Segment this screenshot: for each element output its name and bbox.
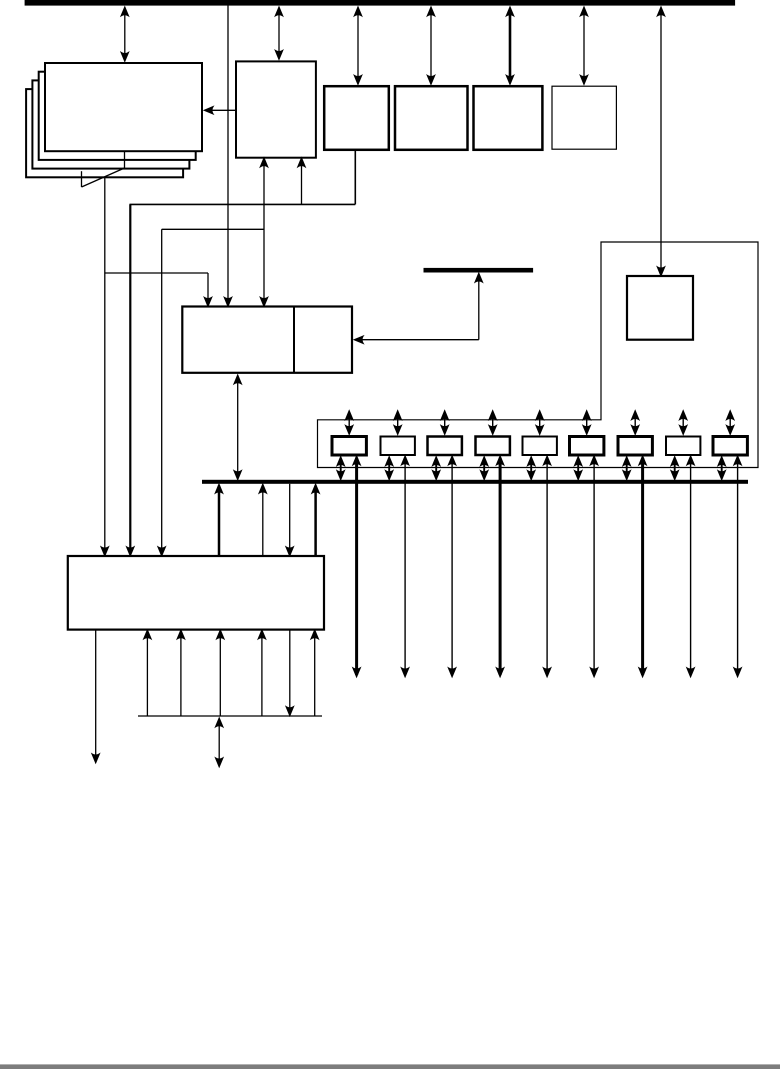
wire: control block to register stack (arrow left) <box>207 109 237 111</box>
block B2 <box>395 86 468 150</box>
status register bar (thick) <box>424 268 534 273</box>
wire: latch P8 to data bus (double arrow) <box>721 459 723 478</box>
wire: bus to register stack (double arrow) <box>124 9 126 60</box>
wire: control block bottom branch (up arrow) <box>301 160 303 205</box>
wire: latch P7 to data bus (double arrow) <box>674 459 676 478</box>
wire: latch P6 to data bus (double arrow) <box>626 459 628 478</box>
footer rule (gray) <box>0 1064 780 1069</box>
wire: data bus to ALU (down arrow) <box>289 484 291 554</box>
wire: status bar to decode block (L, two heads) <box>478 275 480 340</box>
wire: latch P7 long line to pins (down arrow) <box>690 458 692 675</box>
port latch P0 <box>332 437 366 456</box>
port latch P5 <box>570 437 604 456</box>
wire: latch P3 long line to pins (down arrow) <box>499 458 502 675</box>
wire: rail stub (double arrow) <box>218 720 220 765</box>
wire: bus to block B3 (double arrow, bold) <box>509 9 512 83</box>
wire: latch P4 to data bus (double arrow) <box>530 459 532 478</box>
control block <box>236 61 316 157</box>
port latch P6 <box>618 437 652 456</box>
wire: rail to ALU (up arrow) <box>219 632 221 716</box>
wire: pad to latch P5 (double arrow) <box>586 413 588 433</box>
wire: pad to latch P2 (double arrow) <box>444 413 446 433</box>
block B1 <box>324 86 389 150</box>
wire: bold line down to ALU block <box>129 204 131 554</box>
wire: latch P2 long line to pins (down arrow) <box>451 458 453 675</box>
wire: latch P2 to data bus (double arrow) <box>435 459 437 478</box>
wire: latch P6 long line to pins (down arrow) <box>641 458 644 675</box>
wire: pad to latch P3 (double arrow) <box>492 413 494 433</box>
wire: pad to latch P4 (double arrow) <box>539 413 541 433</box>
wire: rail to ALU (up arrow) <box>314 632 316 716</box>
wire: register stack down to ALU <box>104 177 106 554</box>
wire: data bus to ALU (up arrow, bold) <box>218 486 221 556</box>
wire: bus to block B1 (double arrow) <box>357 9 359 83</box>
peripheral block <box>627 276 693 340</box>
wire: rail to ALU (up arrow) <box>146 632 148 716</box>
I/O port container (L-shaped outline) <box>318 242 759 468</box>
wire: pad to latch P7 (double arrow) <box>682 413 684 433</box>
wire: pad to latch P1 (double arrow) <box>397 413 399 433</box>
wire: data bus to ALU (up arrow) <box>262 486 264 556</box>
register bank stack (4 layers) <box>26 89 183 177</box>
wire: latch P0 long line to pins (down arrow) <box>355 458 358 675</box>
wire: long control line from bus <box>227 5 229 298</box>
wire: decode block to data bus (double arrow) <box>237 377 239 478</box>
wire: latch P0 to data bus (double arrow) <box>340 459 342 478</box>
wire: pad to latch P8 (double arrow) <box>729 413 731 433</box>
wire: latch P1 long line to pins (down arrow) <box>404 458 406 675</box>
wire: bus to block B2 (double arrow) <box>430 9 432 83</box>
wire: latch P5 long line to pins (down arrow) <box>593 458 595 675</box>
wire: latch P3 to data bus (double arrow) <box>483 459 485 478</box>
wire: rail to ALU (up arrow) <box>261 632 263 716</box>
stack selector tail <box>124 151 126 168</box>
port latch P4 <box>523 437 557 456</box>
wire: ALU output (down arrow) <box>95 630 97 761</box>
block B4 <box>552 86 616 149</box>
wire: stack branch to decode block <box>105 272 208 274</box>
port latch P1 <box>381 437 415 456</box>
wire: latch P8 long line to pins (down arrow) <box>737 458 739 675</box>
wire: pad to latch P6 (double arrow) <box>634 413 636 433</box>
wire: data bus to ALU (up arrow, bold) <box>314 486 317 556</box>
ALU block <box>68 556 324 630</box>
decode block divider <box>293 307 295 372</box>
wire: control to decode (double arrow) <box>263 160 265 305</box>
wire: B1 to node row (L path) <box>354 150 356 205</box>
wire: latch P1 to data bus (double arrow) <box>388 459 390 478</box>
port latch P3 <box>476 437 510 456</box>
wire: latch P5 to data bus (double arrow) <box>577 459 579 478</box>
port latch P2 <box>428 437 462 456</box>
port latch P8 <box>713 437 747 456</box>
wire: bus to control block (double arrow) <box>278 9 280 58</box>
wire: latch P4 long line to pins (down arrow) <box>546 458 548 675</box>
instruction decode block <box>182 307 352 373</box>
wire: branch row to ALU <box>162 228 264 230</box>
node rail below ALU <box>138 715 322 717</box>
main data bus (thick) <box>202 480 748 484</box>
port latch P7 <box>666 437 700 456</box>
top system bus bar <box>25 0 736 6</box>
wire: rail to ALU (up arrow) <box>180 632 182 716</box>
wire: bus to block B4 (double arrow) <box>583 9 585 83</box>
wire: bus to peripheral box (double arrow) <box>660 9 662 275</box>
wire: pad to latch P0 (double arrow) <box>348 413 350 433</box>
wire: ALU to rail (down arrow) <box>289 630 291 714</box>
block B3 <box>474 86 543 150</box>
